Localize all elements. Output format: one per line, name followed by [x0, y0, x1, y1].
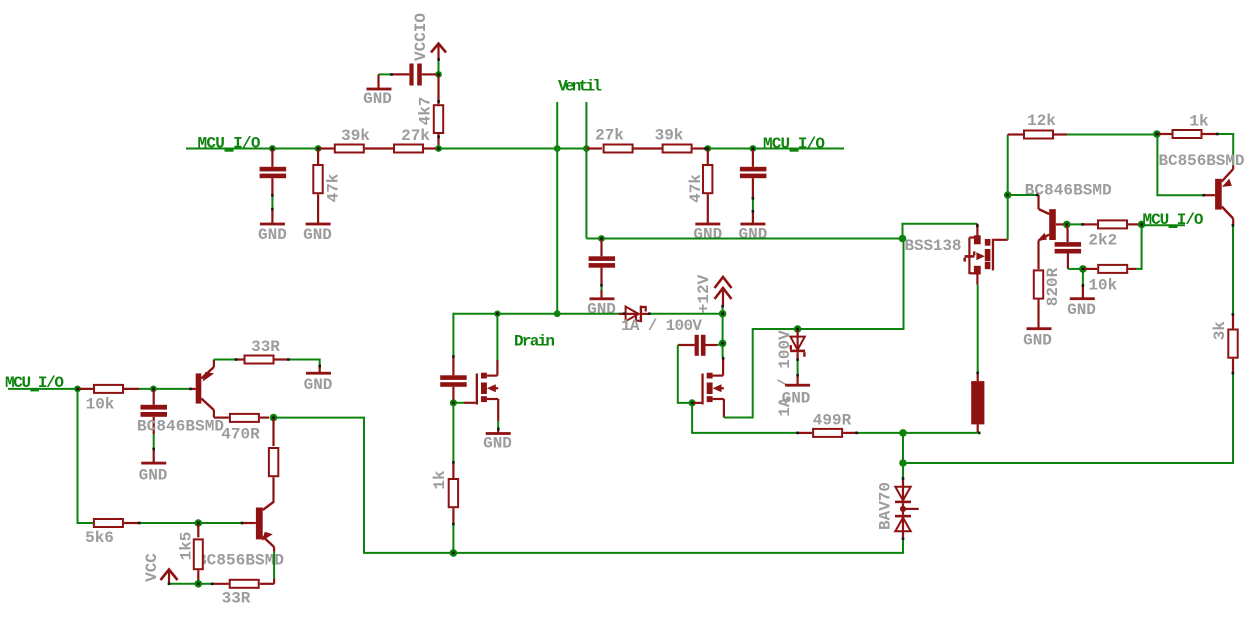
svg-text:39k: 39k — [341, 127, 370, 145]
resistor 33R (top) — [236, 338, 288, 364]
wire mid cap to GND — [601, 285, 603, 290]
node junction Ventil-left bottom — [554, 310, 561, 317]
node junction Ventil-right / rail — [583, 145, 590, 152]
svg-text:470R: 470R — [221, 426, 260, 444]
svg-text:Ventil: Ventil — [558, 78, 602, 96]
svg-text:12k: 12k — [1027, 112, 1056, 130]
svg-text:GND: GND — [303, 226, 332, 244]
node VCCIO junction — [435, 71, 442, 78]
wire BAV70 to bottom rail — [453, 539, 903, 553]
wire cap to GND — [271, 195, 273, 210]
supply symbol VCCIO — [412, 13, 446, 61]
ground GND (FET1 source) — [483, 430, 512, 452]
resistor 4k7 — [417, 74, 444, 148]
wire 1k to PNP emitter corner — [1217, 134, 1233, 165]
capacitor C (right of 39k) — [740, 149, 767, 199]
transistor Q-FET2 (n-mosfet) — [692, 358, 724, 417]
svg-text:47k: 47k — [687, 174, 705, 203]
capacitor C-VCCIO — [391, 64, 436, 86]
resistor R (unlabeled, vertical) — [269, 418, 278, 502]
ground GND (10k node) — [1067, 285, 1096, 319]
svg-text:GND: GND — [782, 389, 811, 407]
svg-text:BC856BSMD: BC856BSMD — [1159, 152, 1245, 170]
wire diode to +12V junction — [649, 313, 723, 315]
supply symbol VCC — [143, 553, 178, 584]
svg-text:GND: GND — [304, 376, 333, 394]
wire shunt rail — [903, 432, 978, 434]
capacitor C (BC846 base) — [1055, 224, 1082, 269]
resistor 12k — [1008, 112, 1068, 139]
wire +12V rail y=313.7 left part — [453, 313, 625, 315]
wire +12V junction down to FET2 node — [722, 314, 724, 344]
wire collector rail from 12k node — [1008, 194, 1038, 196]
node junction 1k5 top — [195, 519, 203, 527]
ground GND (mid cap) — [587, 290, 616, 318]
resistor 39k — [319, 127, 394, 153]
transistor Q-BC856 (top right pnp) — [1204, 165, 1234, 225]
resistor 2k2 — [1083, 220, 1142, 249]
node junction 12k/1k/base feed — [1153, 130, 1161, 138]
ground GND (right cap) — [738, 212, 767, 243]
svg-text:GND: GND — [693, 225, 722, 243]
inductor L (shunt bar) — [971, 373, 984, 433]
wire zener to GND — [797, 360, 799, 376]
wire right cap to GND — [752, 198, 754, 212]
svg-text:5k6: 5k6 — [85, 529, 114, 547]
label BC856BSMD (left) — [197, 552, 284, 570]
node junction +12V / rail — [719, 310, 727, 318]
wire cap to GND corner — [379, 73, 392, 75]
ground GND (820R) — [1023, 327, 1052, 349]
wire junction down to GND — [1082, 269, 1084, 285]
svg-text:2k2: 2k2 — [1088, 231, 1117, 249]
wire +12V stem to rail — [722, 306, 724, 314]
node junction base/cap branch — [150, 386, 157, 393]
wire emitter down — [273, 552, 275, 579]
svg-text:33R: 33R — [251, 338, 280, 356]
diode Z 1A/100V (zener, vertical) — [776, 329, 806, 417]
wire junction to 33R bottom — [198, 583, 212, 585]
node junction gate-feed / vertical — [899, 235, 907, 243]
wire VCCIO arrow to junction — [438, 59, 440, 74]
svg-text:VCCIO: VCCIO — [412, 13, 430, 61]
node junction 10k/cap/gnd — [1079, 265, 1087, 273]
node junction 470R / feedback — [270, 414, 278, 422]
resistor 39k (right) — [655, 127, 705, 153]
resistor 27k (right) — [586, 127, 662, 153]
node junction 47k-right branch — [704, 145, 711, 152]
node junction 1k5 bottom / VCC — [195, 580, 203, 588]
wire Ventil vertical left — [556, 102, 558, 314]
resistor 47k (right) — [687, 149, 712, 224]
svg-text:1k: 1k — [431, 470, 449, 490]
label BC856BSMD (top right) — [1159, 152, 1245, 170]
resistor 10k (left) — [78, 385, 140, 414]
wire rail to Ventil verticals — [439, 148, 589, 150]
node junction 47k branch — [315, 145, 322, 152]
resistor 1k5 — [178, 523, 203, 584]
resistor 470R — [221, 414, 269, 444]
svg-text:BC846BSMD: BC846BSMD — [137, 418, 224, 436]
ground GND (VCCIO cap) — [363, 74, 392, 108]
svg-text:GND: GND — [483, 434, 512, 452]
node junction MCU_I/O right — [1138, 221, 1146, 229]
svg-text:GND: GND — [587, 300, 616, 318]
label MCU_I/O (top right net) — [763, 135, 825, 153]
label MCU_I/O (top left net) — [198, 134, 261, 152]
node junction FET1 gate/cap/1k — [450, 399, 457, 406]
svg-text:GND: GND — [139, 466, 168, 484]
node 4k7 bottom junction — [435, 145, 442, 152]
wire 12k to 1k rail — [1067, 134, 1157, 136]
capacitor C (mid, on gate feed) — [589, 239, 616, 286]
label BSS138 — [905, 237, 962, 255]
capacitor C (left of 47k) — [260, 149, 287, 196]
capacitor C (left base) — [141, 389, 168, 434]
wire vertical to BAV70 — [902, 433, 904, 479]
wire PNP collector down to 3k — [1232, 225, 1234, 315]
svg-text:VCC: VCC — [143, 553, 161, 582]
svg-text:+12V: +12V — [695, 274, 713, 313]
wire drain feed corner to BSS138 — [903, 224, 978, 239]
label BC846BSMD (left) — [137, 418, 224, 436]
diode D 1A/100V (horizontal) — [619, 306, 702, 335]
svg-text:GND: GND — [363, 90, 392, 108]
transistor Q-BSS138 (n-mosfet, mirrored) — [964, 224, 1008, 285]
wire MCU_I/O stub — [1142, 224, 1185, 226]
supply symbol +12V — [695, 274, 732, 313]
svg-text:GND: GND — [1023, 331, 1052, 349]
wire FET2 source loop right and up — [724, 329, 798, 418]
svg-text:820R: 820R — [1044, 267, 1062, 306]
wire cap bottom to 10k junction — [1068, 268, 1083, 270]
wire BSS138 gate up to 12k node — [1007, 135, 1009, 240]
svg-text:33R: 33R — [222, 590, 251, 608]
svg-text:3k: 3k — [1211, 321, 1229, 341]
diode D-BAV70 (dual, common cathode) — [877, 479, 919, 539]
label MCU_I/O (bottom left net) — [5, 374, 64, 392]
svg-text:BAV70: BAV70 — [877, 482, 895, 530]
wire MCU_I/O rail left — [186, 148, 319, 150]
ground GND (left 47k) — [303, 223, 332, 244]
wire rail to right cap — [705, 148, 844, 150]
node junction FET1 drain — [494, 311, 500, 317]
svg-text:1k: 1k — [1189, 112, 1209, 130]
svg-text:GND: GND — [738, 225, 767, 243]
node junction base/2k2/cap — [1063, 221, 1071, 229]
wire 499R to junction — [858, 432, 903, 434]
wire cap left lead down and around — [678, 345, 692, 403]
svg-text:1A / 100V: 1A / 100V — [621, 317, 702, 335]
ground GND (left base cap) — [139, 449, 168, 484]
wire base feed down and right — [1157, 134, 1203, 195]
wire 5k6 feed — [78, 389, 94, 523]
svg-text:GND: GND — [258, 226, 287, 244]
svg-text:47k: 47k — [325, 173, 343, 202]
wire FET2 drain to junction — [722, 343, 725, 358]
resistor 1k (mid) — [431, 462, 458, 524]
wire MCU_I/O junction down to 10k — [1136, 224, 1142, 269]
ground GND (left cap) — [258, 210, 287, 244]
resistor 820R — [1034, 267, 1062, 327]
ground GND (33R top) — [304, 366, 333, 394]
svg-text:BSS138: BSS138 — [905, 237, 962, 255]
svg-text:27k: 27k — [595, 127, 624, 145]
node junction right-cap branch — [750, 145, 757, 152]
label Ventil — [558, 78, 602, 96]
wire rail corner down to gate cap — [452, 313, 454, 357]
svg-text:27k: 27k — [401, 127, 430, 145]
ground GND (right 47k) — [693, 223, 722, 244]
node junction FET2 gate/source — [689, 399, 696, 406]
transistor Q-FET1 (n-mosfet) — [464, 360, 498, 421]
svg-text:Drain: Drain — [514, 333, 555, 351]
resistor 47k (left) — [313, 149, 342, 224]
resistor 27k — [394, 127, 436, 153]
ground GND (zener) — [782, 375, 811, 407]
node junction cap branch — [269, 145, 276, 152]
resistor 5k6 — [85, 519, 139, 547]
node junction output rail — [899, 459, 907, 467]
junction pin centers — [76, 73, 1158, 585]
resistor 499R — [798, 411, 858, 437]
svg-text:39k: 39k — [655, 127, 684, 145]
wire cap right lead to junction — [717, 343, 723, 345]
wire cap to GND — [153, 434, 155, 449]
resistor 3k — [1211, 315, 1238, 373]
node junction 12k-left / gate / collector — [1004, 191, 1012, 199]
wire zener junction to vertical x=902.5 — [798, 238, 904, 330]
wire bottom rail left part — [274, 418, 454, 553]
resistor 10k (right) — [1083, 265, 1136, 295]
label MCU_I/O (right net) — [1143, 211, 1204, 229]
wire collector to 33R — [214, 359, 236, 361]
svg-text:10k: 10k — [1088, 276, 1117, 294]
wire MCU_I/O bottom-left rail — [8, 388, 190, 390]
svg-text:499R: 499R — [813, 411, 852, 429]
svg-text:BC856BSMD: BC856BSMD — [197, 552, 284, 570]
node junction zener / +12V loop — [794, 325, 802, 333]
wire FET1 drain up — [496, 314, 498, 360]
resistor 1k (top right) — [1157, 112, 1217, 138]
node junction FET2 drain/cap — [719, 340, 727, 348]
svg-text:1k5: 1k5 — [178, 532, 196, 561]
wire junction down to 1k — [452, 403, 454, 463]
node junction 499R rail / vertical — [899, 429, 907, 437]
label Drain — [514, 333, 555, 351]
wire 1k to bottom rail — [452, 524, 454, 553]
wire Ventil vertical right — [585, 102, 587, 239]
svg-text:4k7: 4k7 — [417, 97, 435, 126]
node junction Ventil-left / rail — [554, 145, 561, 152]
wire 3k down to output rail — [903, 373, 1233, 463]
transistor Q-BC846 (left npn) — [190, 360, 229, 418]
svg-text:10k: 10k — [86, 396, 115, 414]
wire FET2 gate junction down to 499R rail — [692, 403, 798, 433]
label BC846BSMD (right) — [1025, 182, 1112, 200]
node junction 1k / bottom rail — [450, 549, 458, 557]
wire gate lead — [453, 402, 464, 404]
wire base junction to 2k2 — [1067, 223, 1083, 225]
pin dots — [138, 58, 1234, 585]
node junction mid-cap branch — [598, 235, 605, 242]
svg-text:GND: GND — [1067, 301, 1096, 319]
transistor Q-BC846 (right npn) — [1037, 195, 1067, 269]
wire gate feed horizontal y=238.5 — [586, 238, 902, 240]
capacitor C (FET1 gate-source) — [440, 357, 467, 403]
wire 5k6 to base junction — [139, 522, 242, 524]
wire BSS138 source down — [977, 285, 979, 373]
wire FET1 source down — [497, 421, 499, 430]
wire 33R to GND corner — [288, 360, 319, 367]
transistor Q-BC856 (left pnp) — [242, 502, 274, 552]
resistor 33R (bottom) — [212, 579, 274, 608]
capacitor C (FET2 drain-gate) — [678, 335, 717, 356]
node junction 5k6 branch — [74, 386, 81, 393]
wire VCC to junction — [169, 583, 198, 585]
